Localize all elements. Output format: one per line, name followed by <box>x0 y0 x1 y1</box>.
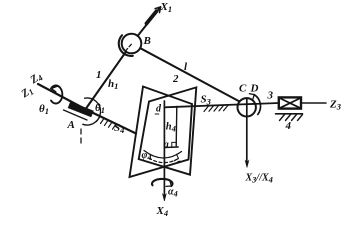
svg-text:a: a <box>164 140 169 151</box>
svg-text:Z1: Z1 <box>18 84 35 102</box>
svg-text:θ1: θ1 <box>39 103 49 116</box>
svg-text:S4: S4 <box>114 122 124 135</box>
svg-text:3: 3 <box>267 90 274 102</box>
svg-text:d: d <box>156 104 162 115</box>
svg-text:l: l <box>184 61 188 73</box>
svg-text:D: D <box>250 83 259 95</box>
svg-text:C: C <box>239 83 247 95</box>
svg-text:4: 4 <box>285 120 292 132</box>
svg-text:1: 1 <box>96 69 102 81</box>
svg-text:α4: α4 <box>168 187 178 199</box>
svg-text:h1: h1 <box>108 78 118 91</box>
svg-text:h4: h4 <box>166 122 176 134</box>
svg-text:θ1: θ1 <box>95 102 105 115</box>
svg-text:A: A <box>67 119 75 131</box>
svg-text:X1: X1 <box>160 1 173 14</box>
svg-text:φ4: φ4 <box>142 150 152 162</box>
svg-text:S3: S3 <box>201 94 212 107</box>
svg-text:X3//X4: X3//X4 <box>245 173 273 185</box>
svg-text:Z3: Z3 <box>329 99 342 112</box>
svg-text:B: B <box>143 35 151 47</box>
svg-text:X4: X4 <box>156 205 169 218</box>
svg-text:2: 2 <box>172 73 179 85</box>
